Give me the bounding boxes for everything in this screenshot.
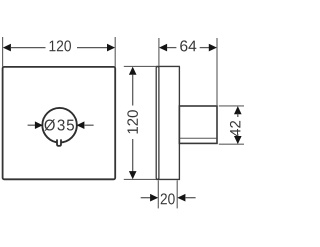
width dim line left <box>11 47 46 49</box>
wall box bottom edge <box>156 178 180 180</box>
thickness ext line right <box>176 180 178 208</box>
width dim line right <box>77 47 107 49</box>
depth dim line left <box>167 47 177 49</box>
depth arrow right <box>209 44 217 52</box>
depth ext line left <box>158 38 160 66</box>
width label 120 <box>50 40 71 51</box>
thickness lead line left <box>141 197 151 199</box>
side height ext line top <box>124 65 156 67</box>
dia label Ø 35 <box>44 119 74 131</box>
front-view square plate <box>3 67 116 179</box>
depth label 64 <box>180 40 196 51</box>
dia arrow right <box>77 121 85 129</box>
thickness lead line right <box>185 197 196 199</box>
cartridge block <box>179 106 217 143</box>
side height ext line bottom <box>124 178 156 180</box>
dia arrow left <box>35 121 43 129</box>
side height label 120 <box>127 110 138 133</box>
side height dim line lower <box>132 139 134 172</box>
escutcheon plate side profile <box>156 67 159 180</box>
side height arrow bottom <box>129 171 137 179</box>
width ext line left <box>2 37 4 67</box>
wall box top edge <box>156 65 180 67</box>
block height dim line upper <box>237 114 239 117</box>
depth dim line right <box>200 47 209 49</box>
handle circle Ø35 <box>42 108 77 143</box>
side height dim line upper <box>132 75 134 106</box>
thickness label 20 <box>161 193 175 204</box>
width arrow left <box>3 44 11 52</box>
width ext line right <box>114 37 116 67</box>
width arrow right <box>107 44 115 52</box>
block height arrow bottom <box>234 136 242 144</box>
thickness arrow left <box>150 194 158 202</box>
depth ext line right <box>216 38 218 106</box>
block height arrow top <box>234 106 242 114</box>
wall box right edge <box>178 66 180 179</box>
thickness ext line left <box>157 180 159 208</box>
side height arrow top <box>129 67 137 75</box>
block height ext line top <box>219 105 244 107</box>
handle tab notch <box>57 139 61 146</box>
dia dim line right <box>85 124 94 126</box>
block height label 42 <box>230 121 240 137</box>
depth arrow left <box>159 44 167 52</box>
block height dim line lower <box>237 134 239 137</box>
block height ext line bottom <box>219 143 244 145</box>
dia dim line left <box>28 124 36 126</box>
cartridge step line <box>180 137 217 139</box>
thickness arrow right <box>177 194 185 202</box>
